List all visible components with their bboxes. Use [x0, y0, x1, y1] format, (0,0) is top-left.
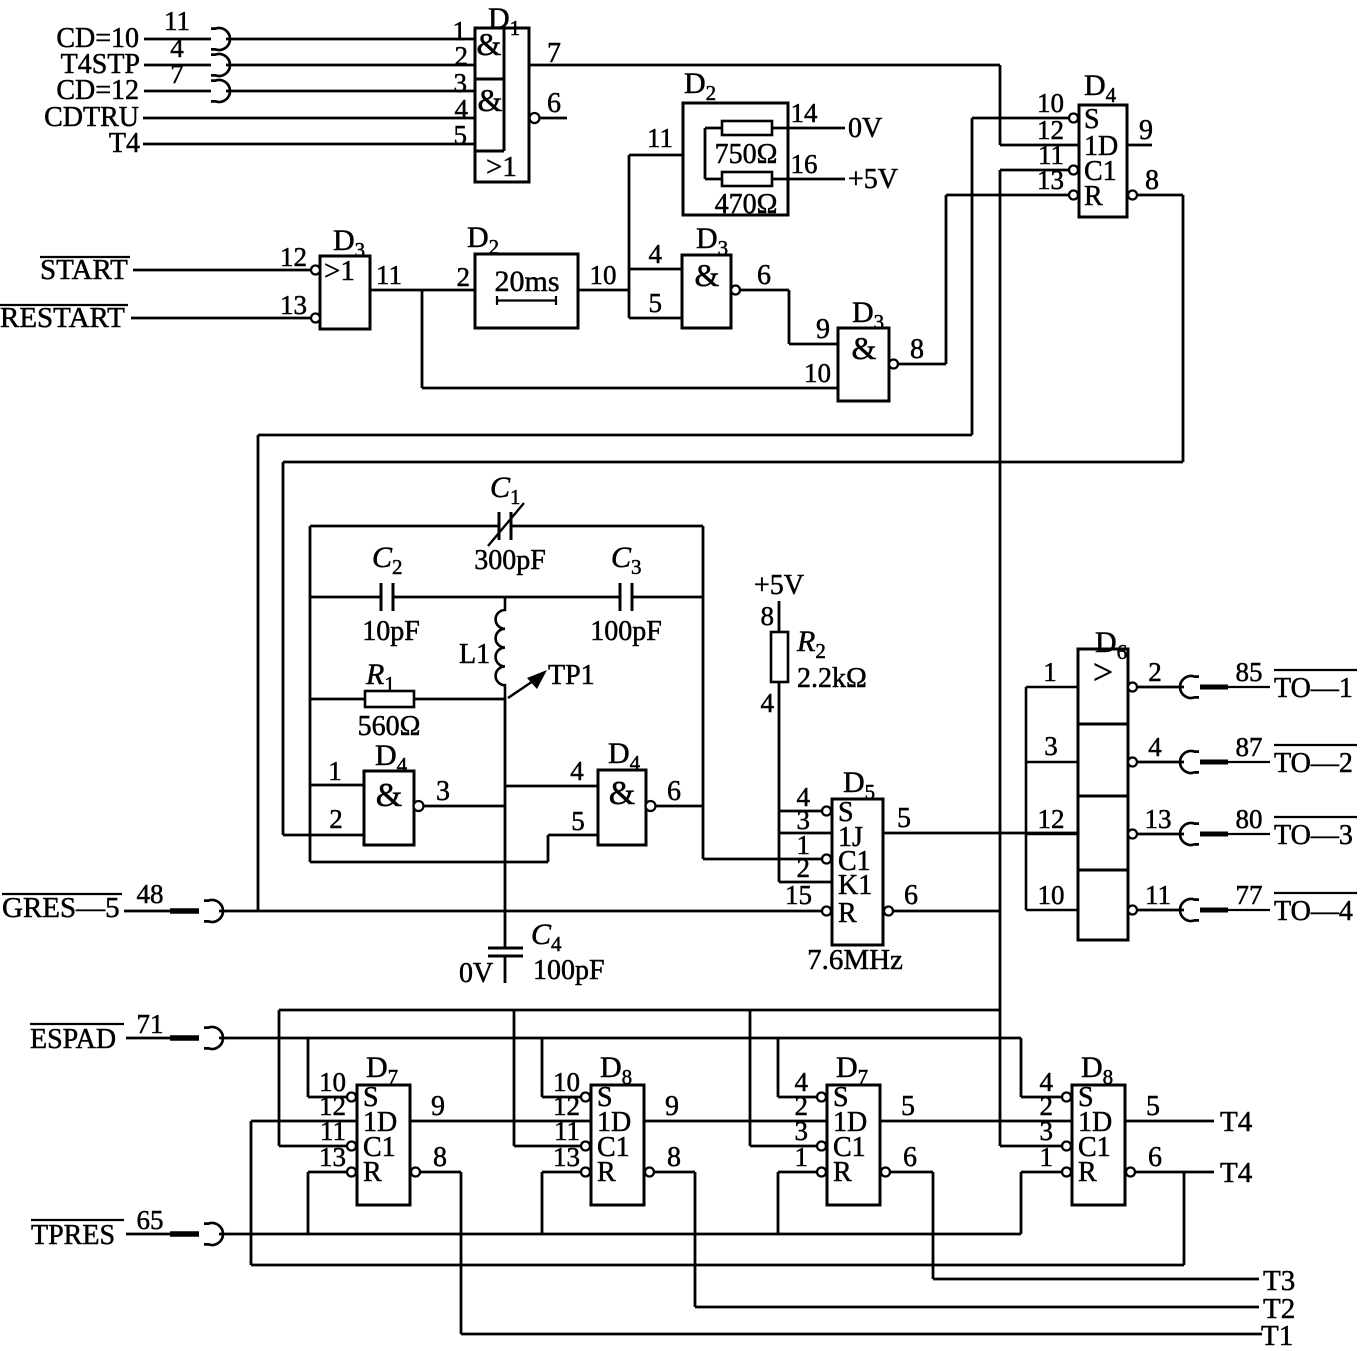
- wire net D4.8 y462 line: [283, 461, 1183, 464]
- wire D4L pin 2: [283, 804, 364, 835]
- flip-flop D4 top: [1079, 69, 1127, 217]
- bubble D8-2 R: [581, 1168, 590, 1177]
- wire START to D3 pin 12: [133, 269, 311, 272]
- flip-flop D8 second: [591, 1051, 644, 1205]
- wire CDTRU to D1 pin 4: [143, 117, 475, 120]
- wire D8-4.6 feedback down: [1183, 1172, 1186, 1265]
- wire T4 to D1 pin 5: [143, 143, 475, 146]
- svg-text:85: 85: [1236, 657, 1263, 687]
- bubble D7-1 C1: [347, 1142, 356, 1151]
- wire vertical distribution to D2 resistor block and D3 pins: [628, 155, 631, 318]
- svg-text:5: 5: [649, 288, 663, 318]
- svg-text:R: R: [838, 898, 857, 929]
- resistor 470ohm: [715, 172, 778, 220]
- bubble D7-3 S: [817, 1093, 826, 1102]
- gate D3 AND second: [682, 222, 731, 328]
- bubble D8-2 S: [581, 1093, 590, 1102]
- svg-text:65: 65: [137, 1205, 164, 1235]
- wire D7-3 R to TPRES: [778, 1172, 817, 1234]
- node CD=10 input label: [56, 23, 139, 54]
- wire D5 K1 pin 2: [779, 881, 832, 884]
- wire D1 output 6 stub: [530, 88, 568, 123]
- wire D7-1 S from ESPAD: [308, 1038, 347, 1097]
- svg-text:48: 48: [137, 879, 164, 909]
- svg-text:2.2kΩ: 2.2kΩ: [797, 663, 867, 694]
- svg-text:TO—4: TO—4: [1274, 896, 1353, 927]
- wire D2 output 10: [578, 260, 629, 290]
- svg-text:TO—2: TO—2: [1274, 748, 1353, 779]
- wire D7-1 output 8: [411, 1142, 461, 1177]
- wire D7-1 1D feedback vertical: [250, 1121, 253, 1265]
- svg-text:K1: K1: [838, 870, 872, 901]
- svg-text:560Ω: 560Ω: [358, 711, 421, 742]
- wire feedback line y1265 to D7-1 1D: [251, 1264, 1184, 1267]
- svg-text:TP1: TP1: [548, 660, 595, 691]
- wire D8-2.8 down to T2: [694, 1172, 697, 1307]
- wire D4L output 3: [414, 776, 506, 811]
- wire jog down to D3-3 pin 9: [789, 290, 838, 345]
- node T4 label second: [1220, 1157, 1253, 1189]
- wire net D4.8 right vertical: [1182, 195, 1185, 462]
- capacitor C2 10pF: [362, 541, 420, 647]
- wire clock distribution line y1010: [279, 1009, 1000, 1012]
- gate D4 NAND right: [598, 737, 646, 845]
- svg-text:10: 10: [1037, 88, 1064, 118]
- svg-text:20ms: 20ms: [494, 265, 559, 298]
- wire CD=10 to connector: [144, 38, 211, 41]
- wire pin 11 to D2 resistor block: [629, 123, 683, 155]
- flip-flop D8 fourth: [1072, 1051, 1125, 1205]
- gate D1 AND-OR-invert: [475, 2, 529, 183]
- pin labels D8-2 10 12 11 13: [553, 1067, 580, 1172]
- svg-text:4: 4: [761, 688, 775, 718]
- wire oscillator left rail: [309, 526, 312, 862]
- wire D7-3 output 5 to D8-4 1D: [880, 1091, 1072, 1122]
- output TO-3 row: [1128, 804, 1357, 851]
- wire D4R pin 4: [505, 756, 598, 786]
- svg-text:3: 3: [436, 776, 450, 807]
- wire D4 R pin 13: [946, 194, 1069, 197]
- node 0V label: [848, 113, 882, 144]
- svg-text:2: 2: [797, 853, 811, 883]
- wire junction down from node 11: [421, 290, 424, 388]
- wire net D4.8 left vertical to D4 gate pin 2: [282, 462, 285, 835]
- node T3 label: [1263, 1265, 1295, 1297]
- pin labels D7-1 10 12 11 13: [319, 1067, 346, 1172]
- wire ESPAD thin lead: [126, 1037, 170, 1040]
- svg-text:77: 77: [1236, 880, 1263, 910]
- node T4STP input label: [61, 49, 140, 80]
- svg-text:2: 2: [457, 262, 471, 292]
- svg-text:TO—3: TO—3: [1274, 820, 1353, 851]
- wire D7-1 1D: [251, 1120, 357, 1123]
- svg-text:5: 5: [1146, 1091, 1160, 1122]
- wire D3-3.8 up to D4 R: [945, 195, 948, 364]
- wire D8-4 R to TPRES: [1021, 1172, 1062, 1234]
- pin label 71: [137, 1009, 164, 1039]
- bubble D8-2 C1: [581, 1142, 590, 1151]
- svg-text:750Ω: 750Ω: [715, 139, 778, 170]
- svg-text:7.6MHz: 7.6MHz: [807, 944, 903, 976]
- bubble D5 R: [822, 907, 831, 916]
- gate D4 NAND left: [364, 739, 414, 845]
- svg-text:R: R: [597, 1157, 616, 1188]
- test point TP1 arrow: [508, 660, 595, 698]
- svg-text:10: 10: [590, 260, 617, 290]
- svg-text:2: 2: [1148, 657, 1162, 687]
- wire D4 1D pin 12: [1000, 144, 1079, 147]
- wire TPRES thin lead: [126, 1233, 170, 1236]
- svg-text:RESTART: RESTART: [0, 302, 125, 334]
- svg-text:ESPAD: ESPAD: [30, 1024, 116, 1055]
- wire D8-4 output 5 to T4: [1125, 1091, 1214, 1122]
- svg-text:0V: 0V: [459, 958, 493, 989]
- wire D4 output 8: [1128, 165, 1183, 200]
- inductor L1: [459, 597, 505, 697]
- wire clock down to D7-1 C1: [278, 1010, 281, 1146]
- svg-text:11: 11: [1145, 880, 1171, 910]
- svg-text:100pF: 100pF: [533, 955, 605, 986]
- svg-text:4: 4: [1148, 732, 1162, 762]
- wire D4 output 9 stub: [1127, 115, 1153, 146]
- bubble D4 S input: [1069, 114, 1078, 123]
- wire TPRES line: [219, 1233, 1021, 1236]
- wire R2 to D5 pins: [761, 682, 780, 882]
- node +5V label: [754, 570, 804, 601]
- svg-text:13: 13: [280, 290, 307, 320]
- pin label 2 D2 input: [457, 262, 471, 292]
- svg-text:T4: T4: [1220, 1106, 1253, 1138]
- wire pin 11 to D1 pin 1: [226, 38, 475, 41]
- svg-text:TO—1: TO—1: [1274, 673, 1353, 704]
- svg-text:5: 5: [571, 806, 585, 836]
- wire T4STP to connector: [144, 64, 211, 67]
- bubble D8-4 R: [1062, 1168, 1071, 1177]
- svg-text:14: 14: [791, 98, 819, 128]
- node RESTART input label: [0, 302, 128, 334]
- svg-text:5: 5: [901, 1091, 915, 1122]
- wire ESPAD line: [219, 1037, 1021, 1040]
- wire oscillator right node down to D5 C1: [703, 526, 821, 859]
- wire D8-2 S from ESPAD: [542, 1038, 581, 1097]
- connector pin 11 arc: [164, 6, 230, 50]
- bubble D8-4 S: [1062, 1093, 1071, 1102]
- output TO-1 row: [1128, 657, 1357, 704]
- capacitor C4 100pF: [488, 918, 605, 986]
- node T4 input label: [109, 128, 140, 159]
- pin labels D8-4 4 2 3 1: [1040, 1067, 1054, 1172]
- svg-text:R: R: [1078, 1157, 1097, 1188]
- wire y435 line to D4 S: [258, 118, 972, 435]
- svg-text:71: 71: [137, 1009, 164, 1039]
- output TO-2 row: [1128, 732, 1357, 779]
- pin labels D7-3 4 2 3 1: [795, 1067, 809, 1172]
- svg-text:8: 8: [667, 1142, 681, 1173]
- wire D5 output 5 to D6 pin 12: [883, 803, 1078, 834]
- wire GRES to D5 R: [219, 910, 822, 913]
- wire to D3 pin 4: [629, 239, 682, 269]
- connector GRES thick dash and arc: [170, 900, 223, 922]
- svg-text:T1: T1: [1261, 1320, 1293, 1346]
- svg-text:R: R: [363, 1157, 382, 1188]
- wire pin 14 to 0V: [772, 98, 845, 128]
- bubble D8-4 C1: [1062, 1142, 1071, 1151]
- svg-text:300pF: 300pF: [474, 545, 546, 576]
- svg-text:15: 15: [785, 880, 812, 910]
- svg-text:R: R: [1084, 181, 1103, 212]
- svg-text:7: 7: [170, 59, 184, 89]
- node START input label: [40, 254, 130, 286]
- gate D3 AND third: [838, 296, 889, 401]
- svg-text:100pF: 100pF: [590, 616, 662, 647]
- svg-text:10: 10: [804, 358, 831, 388]
- wire D4 C1 pin 11: [1000, 169, 1069, 172]
- wire D8-4 output 6 to T4: [1126, 1142, 1214, 1177]
- wire to D3 pin 5: [629, 288, 682, 318]
- pin labels D5 4 3 1 2 15: [785, 782, 812, 910]
- bubble D4 R input: [1069, 191, 1078, 200]
- capacitor C1 300pF variable: [474, 471, 546, 576]
- flip-flop D5: [832, 766, 883, 945]
- capacitor C3 100pF: [590, 541, 662, 647]
- node CDTRU input label: [44, 102, 139, 133]
- wire D7-3 S from ESPAD: [778, 1038, 817, 1097]
- svg-text:+5V: +5V: [848, 164, 898, 195]
- svg-text:8: 8: [910, 334, 924, 365]
- resistor R2 2.2kohm: [771, 625, 867, 694]
- node 0V label C4: [459, 958, 493, 989]
- wire D8-2 output 8: [645, 1142, 695, 1177]
- wire pin 7 to D1 pin 3: [226, 90, 475, 93]
- wire D8-2 C1: [514, 1145, 581, 1148]
- svg-text:2: 2: [329, 804, 343, 834]
- svg-text:1: 1: [1043, 657, 1057, 687]
- node T4 label first: [1220, 1106, 1253, 1138]
- svg-text:470Ω: 470Ω: [715, 189, 778, 220]
- wire D8-4 S from ESPAD: [1021, 1038, 1062, 1097]
- bubble D7-1 R: [347, 1168, 356, 1177]
- wire D7-3 output 6: [881, 1142, 933, 1177]
- svg-text:8: 8: [433, 1142, 447, 1173]
- block D2 resistor network: [683, 67, 788, 215]
- svg-text:9: 9: [431, 1091, 445, 1122]
- svg-text:T4: T4: [109, 128, 140, 159]
- wire internal left bus: [705, 128, 722, 179]
- svg-text:1: 1: [328, 756, 342, 786]
- svg-text:11: 11: [647, 123, 673, 153]
- bubble D3 pin 12: [311, 266, 320, 275]
- connector TPRES thick dash and arc: [170, 1223, 223, 1245]
- wire clock net vertical D4.C1 to D8 C1: [999, 170, 1002, 1146]
- node GRES-5 input label: [2, 892, 122, 924]
- svg-text:80: 80: [1236, 804, 1263, 834]
- bubble D5 S: [822, 807, 831, 816]
- wire CD=12 to connector: [144, 90, 211, 93]
- wire node 11 to D3 pin 10 long: [422, 387, 838, 390]
- svg-text:>1: >1: [486, 151, 517, 183]
- wire D5 output 6: [884, 880, 1000, 916]
- pin label 10 D3-3: [804, 358, 831, 388]
- svg-text:16: 16: [791, 149, 818, 179]
- wire clock down to D8-2 C1: [513, 1010, 516, 1146]
- wire D7-1 C1: [279, 1145, 347, 1148]
- svg-text:3: 3: [1044, 731, 1058, 761]
- wire D7-1 R to TPRES: [308, 1172, 347, 1234]
- wire clock down to D7-3 C1: [749, 1010, 752, 1146]
- block D2 20ms monostable: [467, 221, 578, 328]
- wire D8-2 R to TPRES: [542, 1172, 581, 1234]
- wire pin 16 to +5V: [772, 149, 845, 179]
- wire T3 line: [933, 1278, 1259, 1281]
- wire D8-2 output 9 to D7-3 1D: [644, 1091, 827, 1122]
- wire D4R output 6: [646, 776, 704, 811]
- node ESPAD input label: [30, 1024, 124, 1055]
- bubble D4 C1 input: [1069, 166, 1078, 175]
- block D6 input offset box: [1026, 687, 1078, 910]
- svg-text:R: R: [833, 1157, 852, 1188]
- pin label 48: [137, 879, 164, 909]
- svg-text:6: 6: [904, 880, 918, 911]
- pin labels D6 inputs 1 3 12 10: [1038, 657, 1065, 910]
- wire C1 top loop: [310, 525, 703, 528]
- node TPRES input label: [31, 1220, 124, 1251]
- svg-text:5: 5: [454, 120, 468, 150]
- bubble D7-3 R: [817, 1168, 826, 1177]
- svg-text:8: 8: [1145, 165, 1159, 196]
- svg-text:13: 13: [1145, 804, 1172, 834]
- svg-text:6: 6: [757, 260, 771, 291]
- svg-text:+5V: +5V: [754, 570, 804, 601]
- svg-text:4: 4: [570, 756, 584, 786]
- flip-flop D7 third: [827, 1051, 880, 1205]
- svg-text:6: 6: [667, 776, 681, 807]
- svg-text:2: 2: [455, 41, 469, 71]
- svg-text:>1: >1: [324, 255, 355, 287]
- svg-text:7: 7: [547, 38, 561, 69]
- svg-text:6: 6: [903, 1142, 917, 1173]
- wire D7-3 C1: [750, 1145, 817, 1148]
- connector pin 4 arc: [170, 33, 230, 76]
- svg-text:11: 11: [376, 260, 402, 290]
- svg-text:&: &: [695, 257, 720, 293]
- pin labels D4 top 10 12 11 13: [1037, 88, 1064, 195]
- wire D3-2 output 6: [731, 260, 789, 295]
- bubble D5 C1: [822, 855, 831, 864]
- block D6 buffer: [1078, 626, 1128, 940]
- pin labels D1 inputs 1 2 3 4 5: [453, 16, 469, 150]
- node T1 label: [1261, 1320, 1293, 1351]
- wire D5 S pin 4: [779, 810, 822, 813]
- bubble D7-3 C1: [817, 1142, 826, 1151]
- wire D3 output 11 to D2: [370, 260, 475, 290]
- wire D8-4 C1: [1000, 1145, 1062, 1148]
- pin label 65: [137, 1205, 164, 1235]
- svg-text:9: 9: [665, 1091, 679, 1122]
- pin labels D3 12 13: [280, 242, 307, 320]
- svg-text:6: 6: [1148, 1142, 1162, 1173]
- node CD=12 input label: [56, 75, 139, 106]
- svg-text:&: &: [609, 775, 635, 812]
- svg-text:10pF: 10pF: [362, 616, 420, 647]
- wire bottom rail to D4R pin 5: [310, 806, 598, 862]
- connector ESPAD thick dash and arc: [170, 1027, 223, 1049]
- svg-text:11: 11: [164, 6, 190, 36]
- wire T1 line: [461, 1333, 1262, 1336]
- wire +5V down to R2: [761, 601, 780, 632]
- svg-text:&: &: [376, 777, 402, 814]
- svg-text:8: 8: [761, 601, 775, 631]
- wire D1 output 7 to D4 1D: [529, 38, 1000, 69]
- bubble D3 pin 13: [311, 314, 320, 323]
- wire D7-3.6 down to T3: [932, 1172, 935, 1279]
- wire T2 line: [695, 1306, 1259, 1309]
- svg-text:87: 87: [1236, 732, 1263, 762]
- node +5V label right of 470: [848, 164, 898, 195]
- svg-text:12: 12: [1038, 804, 1065, 834]
- svg-text:&: &: [852, 330, 877, 366]
- label 7.6MHz: [807, 944, 903, 976]
- wire vertical D1.7 down to D4 1D: [999, 65, 1002, 145]
- resistor R1 560ohm: [310, 658, 505, 742]
- wire GRES thin lead: [124, 910, 170, 913]
- flip-flop D7 first: [357, 1051, 410, 1205]
- wire D5 1J pin 3: [779, 832, 832, 835]
- output TO-4 row: [1128, 880, 1357, 927]
- svg-text:4: 4: [649, 239, 663, 269]
- svg-text:10: 10: [1038, 880, 1065, 910]
- wire D4 S pin 10: [972, 117, 1069, 120]
- wire GRES vertical to y435 line: [257, 435, 260, 911]
- wire pin 4 to D1 pin 2: [226, 64, 475, 67]
- wire RESTART to D3 pin 13: [131, 317, 311, 320]
- svg-text:GRES—5: GRES—5: [2, 892, 120, 924]
- bubble D7-1 S: [347, 1093, 356, 1102]
- svg-text:&: &: [478, 82, 503, 118]
- svg-text:12: 12: [280, 242, 307, 272]
- gate D3 OR first: [320, 224, 370, 329]
- wire D7-1.8 down to T1: [460, 1172, 463, 1334]
- wire C2 C3 line: [310, 596, 703, 599]
- svg-text:6: 6: [547, 88, 561, 119]
- connector pin 7 arc: [170, 59, 230, 102]
- wire D7-1 output 9 to D8 1D: [410, 1091, 591, 1122]
- svg-text:9: 9: [816, 314, 830, 345]
- svg-text:0V: 0V: [848, 113, 882, 144]
- wire TP1 node vertical to C4: [504, 697, 507, 948]
- svg-text:START: START: [40, 254, 128, 286]
- node T2 label: [1263, 1293, 1295, 1325]
- resistor 750ohm: [715, 121, 778, 170]
- svg-text:5: 5: [897, 803, 911, 834]
- svg-text:T4: T4: [1220, 1157, 1253, 1189]
- svg-text:TPRES: TPRES: [31, 1220, 115, 1251]
- svg-text:9: 9: [1139, 115, 1153, 146]
- wire D3-3 output 8: [889, 334, 946, 369]
- wire D4L pin 1: [310, 756, 364, 786]
- svg-text:L1: L1: [459, 639, 490, 670]
